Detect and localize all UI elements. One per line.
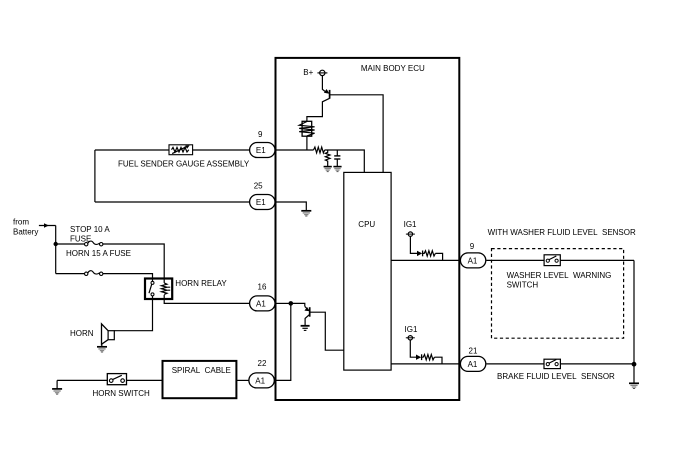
- resistor R3 zigzag: [423, 251, 436, 256]
- connector E1 pin 9: [250, 130, 275, 158]
- horn speaker: [102, 324, 115, 347]
- ground at E1-25: [301, 211, 311, 216]
- svg-text:HORN 15 A FUSE: HORN 15 A FUSE: [66, 249, 131, 258]
- wire horn switch to spiral cable: [127, 379, 163, 381]
- ground under C1: [333, 167, 341, 172]
- svg-text:22: 22: [258, 359, 267, 368]
- wire E1 pin25 to ground: [275, 202, 306, 210]
- wire IG1 upper down: [410, 236, 417, 253]
- wire washer switch to right bus: [560, 259, 634, 261]
- wire R1 to E1-9 row: [306, 136, 308, 150]
- wire horn fuse to relay switch: [103, 274, 153, 279]
- wire brake switch to right bus: [560, 363, 634, 365]
- wire A1-21 to brake switch: [486, 363, 544, 365]
- svg-text:IG1: IG1: [404, 220, 417, 229]
- wire R2 to CPU top: [325, 150, 365, 172]
- resistor R2 zigzag: [314, 147, 325, 153]
- transistor Q2 emitter diagonal with arrow: [305, 306, 309, 310]
- connector E1 pin 25: [250, 182, 275, 210]
- wire A1-22 into ECU up to junction: [275, 303, 291, 380]
- svg-text:A1: A1: [468, 257, 478, 266]
- svg-text:E1: E1: [256, 198, 266, 207]
- ground at horn switch: [52, 380, 62, 394]
- MAIN BODY ECU box: [276, 58, 460, 400]
- svg-text:STOP 10 A: STOP 10 A: [70, 225, 110, 234]
- transistor Q2 input wire: [291, 303, 305, 306]
- transistor Q1 emitter arrowhead: [324, 89, 330, 94]
- wire fuel sender top row left: [95, 149, 169, 151]
- transistor Q2 base bar: [309, 307, 311, 317]
- wire right bus vertical: [633, 260, 635, 383]
- svg-text:SPIRAL CABLE: SPIRAL CABLE: [172, 366, 231, 375]
- svg-text:E1: E1: [256, 146, 266, 155]
- wire fuel sender top row right: [193, 149, 250, 151]
- wire relay switch to horn: [114, 299, 152, 331]
- wire A1-9 to washer switch: [486, 259, 544, 261]
- wire fuel sender bottom row: [95, 201, 250, 203]
- connector A1 pin 9 right: [460, 242, 485, 268]
- dashed option box: [492, 249, 624, 339]
- svg-text:16: 16: [258, 283, 267, 292]
- svg-text:25: 25: [254, 182, 263, 191]
- switch S2 washer level: [544, 255, 560, 266]
- svg-text:HORN SWITCH: HORN SWITCH: [93, 389, 151, 398]
- wire stop fuse to relay coil: [103, 244, 164, 279]
- wire to horn fuse: [56, 273, 85, 275]
- SPIRAL CABLE box: [163, 361, 237, 398]
- connector A1 pin 16: [250, 283, 275, 311]
- wire ground to horn switch: [57, 379, 107, 381]
- wire relay coil to A1-16: [164, 299, 249, 303]
- relay coil: [161, 280, 170, 299]
- ground under D1: [324, 167, 332, 172]
- wire battery vertical: [55, 226, 57, 274]
- wire A1-16 into ECU: [275, 302, 291, 304]
- ground under horn: [97, 347, 107, 352]
- wire R4 to A1-21 row: [434, 357, 442, 364]
- fuse F1 STOP 10A: [85, 241, 103, 246]
- relay K1 HORN RELAY box: [145, 279, 172, 300]
- capacitor C1: [334, 150, 340, 166]
- relay switch contact: [149, 280, 154, 299]
- connector A1 pin 21: [460, 346, 485, 371]
- terminal IG1 upper circle: [406, 233, 415, 235]
- svg-text:WITH WASHER FLUID LEVEL SENSO: WITH WASHER FLUID LEVEL SENSOR: [488, 228, 636, 237]
- svg-text:A1: A1: [468, 360, 478, 369]
- wire E1 pin9 into ECU: [275, 149, 314, 151]
- svg-text:FUEL SENDER GAUGE ASSEMBLY: FUEL SENDER GAUGE ASSEMBLY: [118, 160, 250, 169]
- diode D2: [417, 251, 422, 256]
- wire IG1 lower down: [410, 340, 416, 357]
- fuse F2 HORN 15A: [85, 271, 103, 276]
- svg-text:21: 21: [469, 346, 478, 355]
- svg-text:9: 9: [258, 130, 263, 139]
- wire R3 to A1-9 row: [435, 253, 442, 260]
- svg-text:WASHER LEVEL WARNING: WASHER LEVEL WARNING: [507, 271, 612, 280]
- svg-text:HORN RELAY: HORN RELAY: [175, 279, 227, 288]
- svg-text:MAIN BODY ECU: MAIN BODY ECU: [361, 64, 425, 73]
- svg-text:A1: A1: [256, 299, 266, 308]
- transistor Q1 emitter wire from B+: [322, 76, 326, 93]
- wire spiral cable to A1-22: [236, 379, 249, 381]
- fuel sender variable resistor: [169, 145, 193, 155]
- svg-text:BRAKE FLUID LEVEL SENSOR: BRAKE FLUID LEVEL SENSOR: [497, 372, 615, 381]
- wire fuel sender left vertical: [94, 150, 96, 202]
- ground right bus: [629, 383, 639, 388]
- wire Q1 to CPU top right: [330, 95, 384, 173]
- switch S1 HORN SWITCH: [107, 374, 126, 385]
- wire to stop fuse: [56, 243, 85, 245]
- wire CPU to A1 pin 9: [391, 259, 461, 261]
- svg-text:CPU: CPU: [358, 220, 375, 229]
- wire CPU to A1 pin 21: [391, 363, 461, 365]
- svg-text:SWITCH: SWITCH: [507, 280, 539, 289]
- junction A1-16/22: [289, 301, 294, 306]
- junction battery/stop: [54, 242, 58, 246]
- connector A1 pin 22: [249, 359, 274, 388]
- svg-text:HORN: HORN: [70, 329, 94, 338]
- transistor Q1 collector diagonal: [307, 98, 330, 121]
- svg-text:Battery: Battery: [13, 227, 38, 236]
- svg-text:9: 9: [470, 242, 475, 251]
- resistor R1 (boxed): [302, 121, 312, 136]
- terminal IG1 lower circle: [406, 337, 415, 339]
- resistor R4 zigzag: [422, 355, 435, 360]
- junction right bus: [632, 362, 637, 367]
- CPU box U1: [344, 172, 391, 370]
- svg-text:B+: B+: [303, 68, 313, 77]
- zener D1 vertical: [325, 150, 330, 166]
- transistor Q2 collector diagonal: [305, 314, 310, 325]
- wire Q2 base to CPU: [310, 312, 344, 350]
- svg-text:IG1: IG1: [405, 325, 418, 334]
- svg-text:from: from: [13, 218, 29, 227]
- battery feed arrow: [39, 225, 56, 227]
- transistor Q1 base bar: [329, 90, 331, 99]
- svg-text:A1: A1: [255, 376, 265, 385]
- node B+ terminal circle: [317, 72, 327, 74]
- ground at Q2: [301, 326, 310, 331]
- diode D3: [416, 355, 421, 360]
- switch S3 brake fluid level: [544, 359, 560, 368]
